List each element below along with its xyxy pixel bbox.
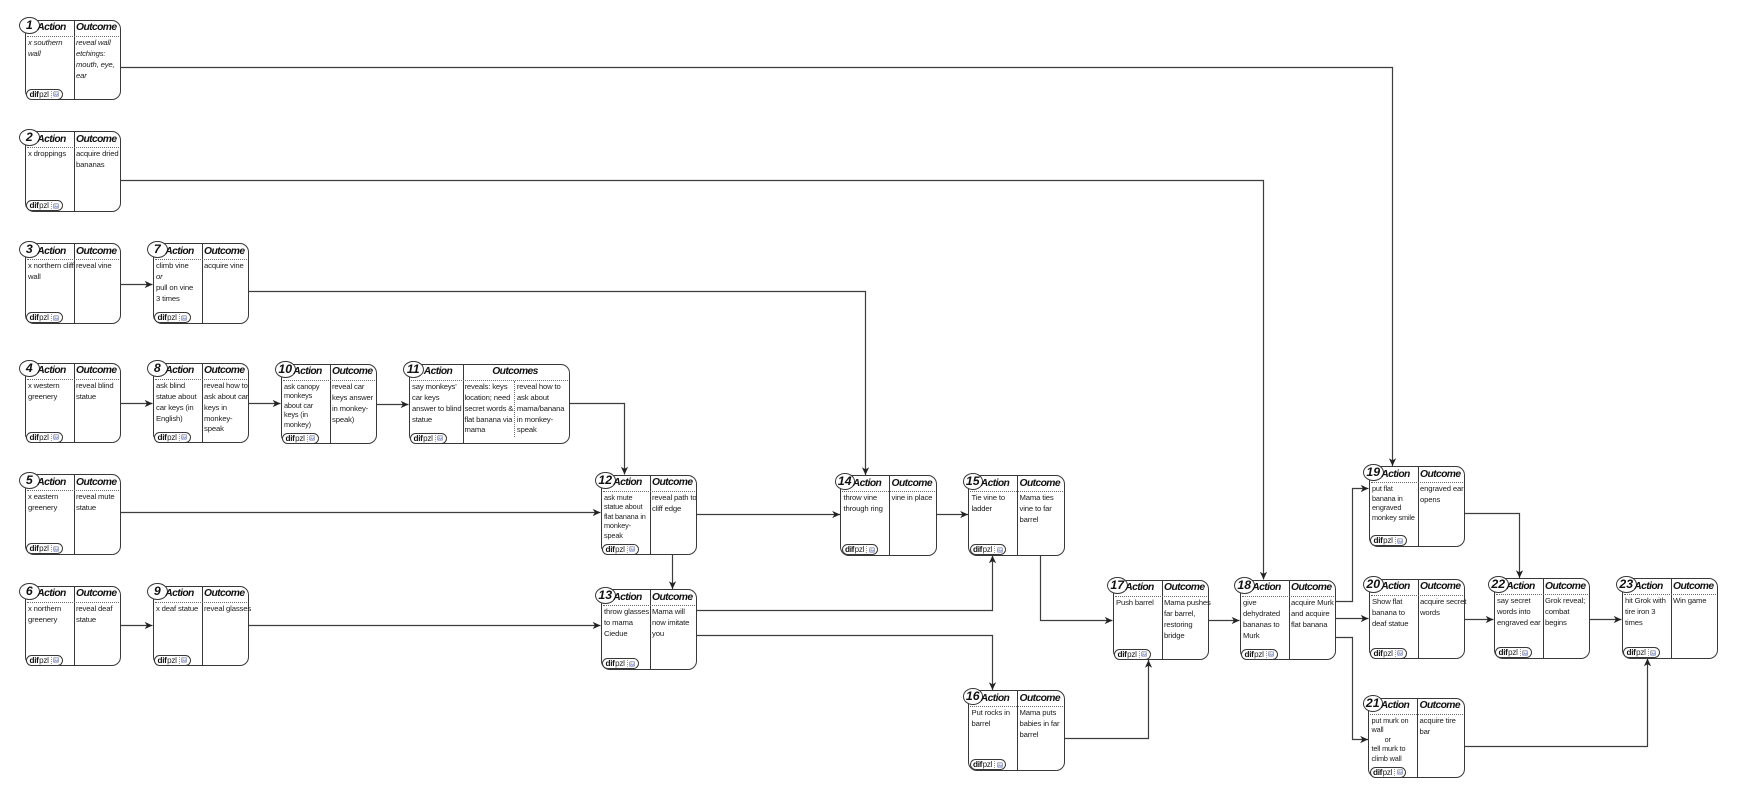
node 21 box — [1368, 698, 1465, 779]
wire 15 to 17 — [1041, 556, 1113, 625]
node 15 box — [968, 475, 1065, 556]
node 2 box — [25, 131, 122, 212]
wire 13 to 15 — [697, 556, 996, 611]
wire 21 to 23 — [1465, 659, 1652, 747]
wire 7 to 14 — [249, 292, 869, 476]
wire 18 to 21 — [1336, 638, 1368, 744]
node 1 box — [25, 20, 122, 101]
node 20 box — [1369, 579, 1466, 660]
wire 5 to 12 — [121, 509, 601, 516]
node 14 box — [840, 475, 937, 556]
wire 13 to 16 — [697, 636, 996, 691]
node 10 box — [281, 364, 378, 445]
wire 1 to 19 — [121, 68, 1396, 467]
node 3 box — [25, 243, 122, 324]
wire 2 to 18 — [121, 181, 1267, 580]
wire 19 to 22 — [1465, 514, 1523, 579]
wire 18 to 19 — [1336, 485, 1369, 602]
wire 4 to 8 — [121, 400, 153, 407]
wire 12 to 14 — [697, 511, 840, 518]
node 4 box — [25, 363, 122, 444]
node 6 box — [25, 586, 122, 667]
wire 12 to 13 — [669, 555, 676, 589]
wire 17 to 18 — [1209, 617, 1240, 624]
wire 18 to 20 — [1336, 615, 1369, 622]
node 23 box — [1622, 578, 1719, 659]
wire 16 to 17 — [1065, 660, 1153, 739]
node 19 box — [1369, 466, 1466, 547]
node 7 box — [153, 243, 250, 324]
node 5 box — [25, 474, 122, 555]
node 17 box — [1113, 580, 1210, 661]
wire 11 to 12 — [570, 404, 629, 475]
wire 14 to 15 — [937, 511, 969, 518]
wire 3 to 7 — [121, 281, 153, 288]
wire 6 to 9 — [121, 622, 153, 629]
node 12 box — [601, 475, 698, 556]
node 9 box — [153, 586, 250, 667]
wire 9 to 13 — [249, 622, 601, 629]
node 16 box — [968, 690, 1065, 771]
node 13 box — [601, 589, 698, 670]
node 11 box — [409, 364, 570, 445]
wire 10 to 11 — [377, 401, 409, 408]
node 8 box — [153, 363, 250, 444]
wire 8 to 10 — [249, 400, 281, 407]
node 22 box — [1494, 578, 1591, 659]
node 18 box — [1240, 580, 1337, 661]
wire 20 to 22 — [1465, 616, 1494, 623]
wire 22 to 23 — [1590, 616, 1622, 623]
